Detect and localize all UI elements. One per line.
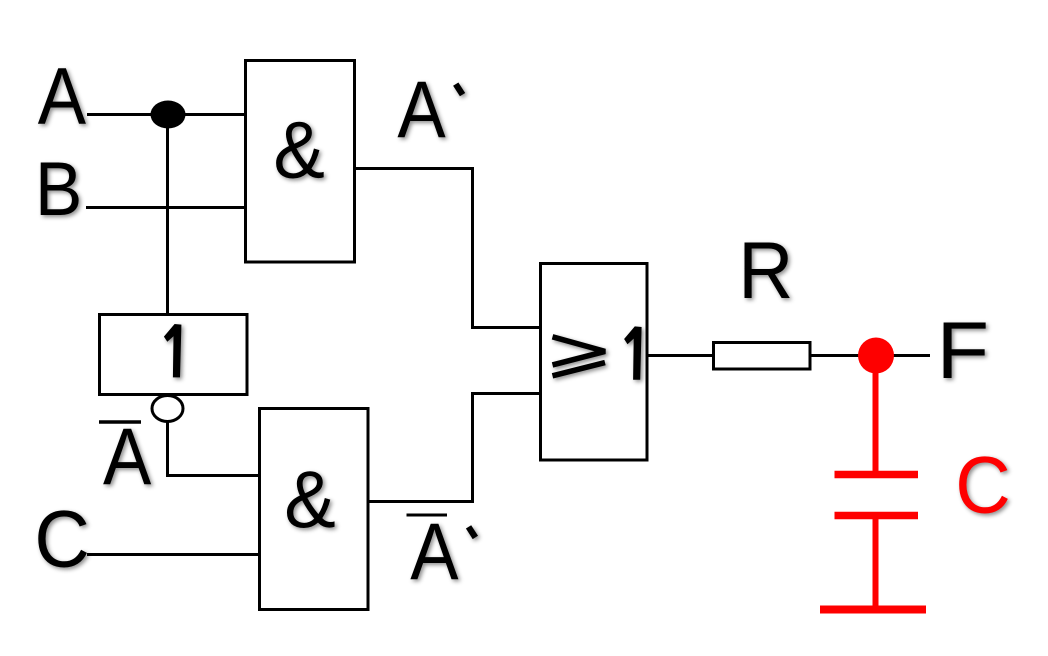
svg-text:&: & [273, 106, 325, 196]
svg-text:A: A [397, 66, 445, 156]
svg-text:C: C [34, 495, 90, 585]
svg-text:&: & [284, 455, 336, 545]
svg-text:R: R [738, 226, 793, 316]
svg-text:A: A [38, 52, 86, 142]
svg-text:A: A [103, 413, 151, 503]
svg-text:B: B [35, 147, 83, 232]
svg-text:F: F [937, 306, 990, 396]
svg-text:C: C [955, 441, 1011, 531]
svg-text:A: A [410, 508, 458, 598]
